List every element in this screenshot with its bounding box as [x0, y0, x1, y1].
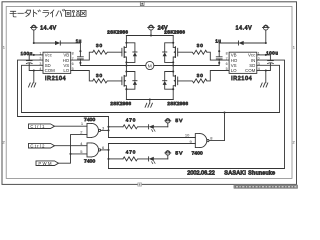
node Q4 source junction [172, 88, 174, 90]
wire Q2 source to motor row [172, 62, 174, 65]
svg-text:8: 8 [72, 52, 74, 56]
wire VS to motor row left [80, 63, 145, 66]
node bottom rail center [149, 98, 151, 100]
resistor R1 30 [93, 50, 122, 54]
node Q1 source junction [125, 61, 127, 63]
svg-text:2002.06.22: 2002.06.22 [187, 171, 215, 177]
wire gate3 output to SD net [209, 113, 225, 141]
node VS junction left [79, 62, 81, 64]
svg-text:10: 10 [185, 133, 190, 138]
svg-text:COM: COM [45, 68, 56, 73]
node Vcc cap junction [33, 54, 35, 56]
label 470 R5 [126, 117, 136, 122]
wire gate2 to resistor R6 [109, 158, 124, 160]
input tag PWM [36, 161, 59, 166]
wire VS to motor row right [218, 63, 220, 66]
wire HO left [71, 52, 93, 60]
ground left [29, 83, 36, 87]
wire gate2 to gate3 pin9 [109, 143, 196, 145]
motor M [146, 61, 154, 69]
wire Q3 source to bottom rail [125, 89, 127, 99]
svg-text:Ctrl2: Ctrl2 [30, 143, 45, 148]
svg-text:1: 1 [293, 44, 296, 49]
label 1u left [76, 38, 82, 43]
svg-text:2: 2 [293, 140, 296, 145]
svg-text:6: 6 [226, 62, 228, 66]
wire Q1 source to motor row [125, 62, 127, 65]
label 2SK2986 Q3 [110, 101, 131, 106]
node VB junction left [79, 50, 81, 52]
power symbol 14.4V right [263, 25, 270, 43]
label 470 R6 [126, 150, 136, 155]
power symbol 5V upper [165, 119, 171, 127]
label date [187, 171, 215, 177]
frame zone label left 1 [3, 44, 6, 49]
label 30 R1 [96, 43, 103, 48]
wire VB drop right [218, 43, 220, 51]
transistor Q4 bottom-right 2SK2986 [172, 66, 178, 90]
capacitor C3 100u right [266, 55, 274, 71]
svg-text:2SK2986: 2SK2986 [107, 29, 128, 34]
label 24V [158, 26, 168, 32]
svg-text:Ctrl1: Ctrl1 [30, 124, 45, 129]
gate U3B pin labels [80, 141, 105, 154]
diode Q1 body diode [126, 43, 137, 63]
LED D3 [149, 125, 168, 132]
diode D1 bootstrap left [55, 41, 80, 45]
svg-text:IR2104: IR2104 [231, 76, 252, 82]
wire LO right [207, 71, 229, 81]
IC U2 pin numbers [226, 52, 260, 72]
wire Ctrl1 to gate1 [55, 125, 88, 127]
label 2SK2986 Q2 [164, 29, 185, 34]
wire PWM to gates [59, 135, 88, 164]
node 24V rail junction [150, 34, 152, 36]
wire IN net right (to gate2 output) [109, 60, 285, 168]
svg-text:2: 2 [3, 140, 6, 145]
label 14.4V left [40, 26, 57, 32]
svg-text:2SK2986: 2SK2986 [110, 101, 131, 106]
power symbol 24V [148, 25, 155, 35]
svg-text:30: 30 [197, 43, 204, 48]
node PWM pin5 junction [69, 153, 71, 155]
wire COM stub right [257, 70, 266, 72]
transistor Q3 bottom-left 2SK2986 [122, 66, 128, 90]
node motor right junction [172, 64, 174, 66]
node COM junction right [265, 69, 267, 71]
node motor left junction [125, 64, 127, 66]
label 5V upper [175, 118, 183, 124]
svg-text:30: 30 [96, 73, 103, 78]
wire COM to ground right [265, 71, 267, 83]
wire bottom rail [126, 99, 173, 101]
label 2SK2986 Q1 [107, 29, 128, 34]
svg-text:5V: 5V [175, 118, 183, 124]
wire Q4 source to bottom rail [172, 89, 174, 99]
label author SASAKI Shunsuke [224, 171, 275, 177]
node Q3 source junction [125, 88, 127, 90]
input tag Ctrl2 [29, 143, 55, 148]
label 30 R3 [197, 43, 204, 48]
gate U3A 7400 NAND [87, 123, 109, 137]
svg-text:7400: 7400 [84, 158, 95, 164]
diode Q3 body diode [126, 72, 137, 90]
svg-text:3: 3 [102, 126, 105, 131]
svg-text:14.4V: 14.4V [236, 26, 253, 32]
svg-text:2SK2986: 2SK2986 [164, 29, 185, 34]
svg-text:COM: COM [245, 68, 256, 73]
svg-text:IR2104: IR2104 [45, 76, 66, 82]
svg-text:6: 6 [72, 62, 74, 66]
svg-text:M: M [148, 63, 152, 69]
wire top rail [126, 35, 173, 37]
resistor R5 470 [123, 125, 149, 129]
wire gate1 to resistor R5 [109, 126, 124, 128]
node gate2 output junction [107, 149, 109, 151]
frame zone tick top B [140, 2, 144, 6]
frame inner border [6, 7, 292, 179]
capacitor C4 1u right [216, 51, 222, 63]
node SD gate3 junction [223, 111, 225, 113]
svg-text:7400: 7400 [84, 117, 95, 123]
svg-text:1: 1 [3, 44, 6, 49]
svg-text:100u: 100u [21, 51, 33, 56]
svg-text:2: 2 [80, 129, 83, 134]
resistor R4 30 [178, 79, 207, 83]
resistor R3 30 [178, 50, 207, 54]
wire HO right [207, 52, 229, 60]
svg-text:LO: LO [231, 68, 237, 73]
node gate1 resistor junction [107, 126, 109, 128]
node COM junction left [33, 69, 35, 71]
transistor Q2 top-right 2SK2986 [172, 36, 178, 63]
IC U2 pin text [231, 53, 256, 74]
watermark bar bottom right [234, 185, 299, 189]
wire gate1 to gate3 pin10 [109, 137, 196, 139]
svg-text:1u: 1u [76, 38, 82, 43]
power symbol 5V lower [165, 151, 171, 159]
transistor Q1 top-left 2SK2986 [122, 36, 128, 63]
wire motor row right [154, 65, 219, 67]
frame zone tick bottom B [138, 183, 142, 186]
frame outer border [2, 2, 297, 185]
svg-text:470: 470 [126, 150, 136, 155]
label IR2104 left [45, 76, 66, 82]
wire SD net shared [22, 65, 280, 112]
node gate1 output junction [107, 129, 109, 131]
svg-text:LO: LO [63, 68, 69, 73]
svg-text:4: 4 [80, 141, 83, 146]
wire 14.4V rail to diode [34, 42, 55, 44]
label 2SK2986 Q4 [167, 101, 188, 106]
label 100u right [266, 50, 278, 55]
wire COM to ground left [33, 71, 35, 83]
wire Vcc stub right [257, 54, 266, 56]
node Vcc-left junction [33, 42, 35, 44]
resistor R6 470 [123, 157, 149, 161]
resistor R2 30 [93, 79, 122, 83]
svg-text:30: 30 [197, 73, 204, 78]
gate U3B 7400 NAND [87, 143, 109, 157]
label 30 R2 [96, 73, 103, 78]
wire LO left [71, 71, 93, 81]
IC U1 pin text [45, 53, 70, 74]
wire IN net left (to gate1 output) [18, 60, 109, 116]
node Vcc cap junction right [265, 54, 267, 56]
label 1u right [215, 38, 221, 43]
svg-text:8: 8 [226, 52, 228, 56]
label 30 R4 [197, 73, 204, 78]
label 100u left [21, 51, 33, 56]
svg-text:SASAKI Shunsuke: SASAKI Shunsuke [224, 171, 275, 177]
node Vcc-right junction [265, 42, 267, 44]
diode Q2 body diode [163, 43, 174, 63]
ground bridge [145, 100, 152, 108]
svg-text:5V: 5V [175, 150, 183, 156]
gate U3C pin labels [185, 133, 213, 144]
wire VB drop left [79, 43, 81, 51]
frame zone label right 1 [293, 44, 296, 49]
node Q2 source junction [172, 61, 174, 63]
svg-text:3: 3 [258, 62, 260, 66]
wire Ctrl2 to gate2 [55, 145, 88, 147]
label 7400 gate2 [84, 158, 95, 164]
svg-text:470: 470 [126, 117, 136, 122]
wire gate2 node vertical [108, 144, 110, 169]
capacitor C2 1u left [78, 51, 84, 63]
capacitor C1 100u left [26, 55, 33, 71]
gate U3A pin labels [80, 121, 105, 134]
IC U1 IR2104 box [43, 52, 71, 73]
input tag Ctrl1 [29, 124, 55, 129]
label 7400 gate3 [192, 150, 203, 156]
ground right [261, 83, 268, 87]
label 5V lower [175, 150, 183, 156]
IC U1 pin numbers [39, 52, 73, 72]
diode D2 bootstrap right [219, 41, 266, 45]
diode Q4 body diode [163, 72, 174, 90]
label 7400 gate1 [84, 117, 95, 123]
power symbol 14.4V left [31, 25, 38, 43]
node gate2 resistor junction [107, 158, 109, 160]
label 14.4V right [236, 26, 253, 32]
IC U2 IR2104 box [229, 52, 257, 73]
wire COM stub left [34, 70, 43, 72]
label IR2104 right [231, 76, 252, 82]
wire Vcc stub left [34, 54, 43, 56]
LED D4 [149, 157, 168, 164]
frame zone label right 2 [293, 140, 296, 145]
svg-text:6: 6 [102, 145, 105, 150]
svg-text:7400: 7400 [192, 150, 203, 156]
wire PWM to gate2 pin5 [71, 153, 88, 155]
node VB junction right [218, 50, 220, 52]
svg-text:30: 30 [96, 43, 103, 48]
node VS junction right [218, 62, 220, 64]
frame zone label left 2 [3, 140, 6, 145]
wire gate1 node vertical [108, 117, 110, 138]
svg-text:14.4V: 14.4V [40, 26, 57, 32]
svg-text:2SK2986: 2SK2986 [167, 101, 188, 106]
title モータドライバ回路図 (drawn strokes) [10, 9, 86, 17]
svg-text:100u: 100u [266, 50, 278, 55]
svg-text:1u: 1u [215, 38, 221, 43]
gate U3C 7400 NAND [195, 134, 209, 148]
svg-text:PWM: PWM [38, 161, 52, 166]
svg-text:8: 8 [210, 136, 213, 141]
